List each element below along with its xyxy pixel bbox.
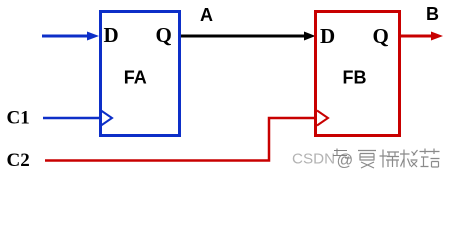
wire A: Q of FA to D of FB xyxy=(181,35,305,38)
watermark username glyph 4 xyxy=(420,149,440,168)
wire C1 clock input to FA xyxy=(43,117,100,120)
svg-text:@: @ xyxy=(337,152,354,170)
clock pin symbol of FB xyxy=(317,111,328,126)
svg-text:A: A xyxy=(200,5,213,25)
watermark username glyph 3 xyxy=(400,150,418,168)
wire B: output of FB xyxy=(399,35,434,38)
svg-text:C2: C2 xyxy=(7,150,30,171)
svg-text:C1: C1 xyxy=(7,108,30,129)
svg-text:D: D xyxy=(104,23,119,47)
flip-flop FB xyxy=(316,12,400,136)
svg-text:D: D xyxy=(320,24,335,48)
watermark CSDN xyxy=(292,151,353,170)
watermark ghost marks xyxy=(333,149,351,159)
wire: data input to D of FA xyxy=(42,35,90,38)
svg-text:FB: FB xyxy=(343,68,367,88)
watermark username glyph 1 xyxy=(358,151,376,169)
svg-text:Q: Q xyxy=(156,23,172,47)
watermark username glyph 2 xyxy=(380,150,400,168)
svg-text:B: B xyxy=(426,4,439,24)
clock pin symbol of FA xyxy=(101,111,112,126)
svg-text:FA: FA xyxy=(124,68,147,88)
wire C2 clock input to FB xyxy=(45,118,316,161)
svg-text:CSDN: CSDN xyxy=(292,151,335,168)
flip-flop FA xyxy=(101,12,180,136)
svg-text:Q: Q xyxy=(373,24,389,48)
